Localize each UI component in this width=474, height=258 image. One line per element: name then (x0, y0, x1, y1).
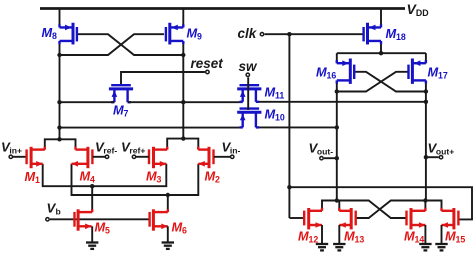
node clk tap (287, 32, 291, 36)
svg-text:10: 10 (275, 113, 285, 123)
label M3 (146, 169, 162, 185)
wire tail T1 (43, 164, 167, 186)
node Vout- (335, 156, 339, 160)
transistor M14 (407, 208, 426, 230)
svg-text:M: M (344, 229, 355, 244)
label Vin- (222, 139, 241, 155)
svg-text:17: 17 (438, 71, 448, 81)
node X bridge (57, 137, 61, 141)
node M18 drain (379, 51, 383, 55)
transistor M16 (337, 59, 354, 84)
label M2 (205, 169, 221, 185)
transistor M8 (60, 23, 77, 45)
wire M11 right to M17 drain (256, 101, 426, 103)
label M16 (316, 65, 336, 81)
wire Vout+ tap (426, 156, 439, 158)
node Vout+ bridge (423, 198, 427, 202)
transistor M12 (304, 208, 322, 230)
node clk ring tap (287, 185, 291, 189)
node Y tap line A (181, 100, 185, 104)
svg-text:reset: reset (191, 56, 224, 71)
wire M16 source drop (336, 53, 338, 63)
wire sw gate (247, 77, 249, 110)
ground M12 (316, 244, 328, 250)
node M8 drain (57, 53, 61, 57)
svg-text:M: M (265, 85, 276, 100)
label M8 (42, 25, 58, 41)
wire tail T2 (72, 164, 199, 195)
wire M8 source column (59, 9, 61, 28)
label M5 (95, 220, 111, 236)
label M11 (265, 85, 285, 101)
svg-text:M: M (80, 169, 91, 184)
wire Vb gate (50, 218, 150, 220)
label reset (191, 56, 224, 71)
wire reset (121, 72, 205, 85)
transistor M11 (237, 85, 261, 102)
svg-text:out-: out- (317, 147, 333, 157)
svg-text:3: 3 (157, 175, 162, 185)
transistor M3 (149, 147, 167, 169)
svg-text:ref+: ref+ (129, 145, 145, 155)
label M13 (344, 229, 364, 245)
svg-text:in-: in- (230, 145, 241, 155)
ground M14 (419, 244, 431, 250)
wire clk column (288, 34, 290, 218)
wire M8 drain to M9 gate cross (60, 34, 165, 55)
wire latch source rail (337, 52, 426, 54)
terminal clk (260, 33, 263, 36)
wire node X to M10 left (60, 127, 243, 129)
label Vin+ (1, 139, 22, 155)
ground M15 (435, 244, 447, 250)
wire M10 right to M16 drain (256, 126, 337, 128)
node X tap line B (57, 125, 61, 129)
label Vref+ (121, 139, 145, 155)
transistor M9 (166, 23, 183, 45)
transistor M5 (75, 209, 93, 231)
wire M6 drain (167, 195, 169, 212)
wire M17 drain column (425, 81, 427, 201)
wire M7 right to M11 left (128, 101, 243, 103)
wire node Y column (182, 41, 184, 139)
svg-text:sw: sw (239, 59, 259, 74)
label M17 (428, 65, 448, 81)
label M4 (80, 169, 96, 185)
transistor M17 (409, 59, 426, 84)
svg-text:M: M (404, 229, 415, 244)
wire clk ring (289, 187, 472, 219)
transistor M6 (150, 209, 168, 231)
svg-text:M: M (428, 65, 439, 80)
svg-text:15: 15 (456, 235, 466, 245)
svg-text:in+: in+ (9, 145, 22, 155)
wire M5 drain (91, 186, 93, 212)
svg-text:M: M (298, 229, 309, 244)
wire M14 M15 drain bridge (425, 201, 441, 211)
wire M13 gate to Vout+ cross (357, 201, 426, 219)
node X tap line A (57, 100, 61, 104)
svg-text:ref-: ref- (103, 145, 117, 155)
node Vout- bridge (335, 198, 339, 202)
transistor M2 (198, 147, 213, 169)
label M18 (386, 26, 406, 42)
node M17 drain tap (424, 100, 428, 104)
svg-text:2: 2 (215, 175, 220, 185)
label Vout+ (428, 141, 455, 157)
svg-text:DD: DD (416, 8, 429, 18)
svg-text:8: 8 (52, 31, 57, 41)
terminal sw (246, 73, 249, 76)
svg-text:16: 16 (327, 71, 337, 81)
terminal Vref+ (132, 155, 135, 158)
svg-text:6: 6 (182, 226, 187, 236)
svg-text:M: M (172, 220, 183, 235)
wire M18 source column (380, 9, 382, 28)
svg-text:M: M (316, 65, 327, 80)
transistor M4 (72, 147, 93, 169)
svg-text:5: 5 (105, 226, 110, 236)
ground M13 (333, 244, 345, 250)
svg-text:M: M (25, 169, 36, 184)
svg-text:b: b (56, 207, 61, 217)
wire M12 M13 drain bridge (322, 201, 339, 211)
label Vref- (95, 139, 117, 155)
node Y bridge (181, 136, 185, 140)
label M6 (172, 220, 188, 236)
node M9 drain (181, 53, 185, 57)
svg-text:M: M (205, 169, 216, 184)
terminal Vin+ (9, 155, 12, 158)
wire M15 source (441, 225, 443, 244)
transistor M18 (364, 23, 381, 45)
transistor M1 (27, 147, 45, 169)
transistor M15 (442, 208, 459, 230)
svg-text:out+: out+ (436, 147, 454, 157)
transistor M13 (339, 208, 355, 230)
label clk (238, 26, 258, 41)
terminal Vout- (320, 157, 323, 160)
wire M17 gate to M16 drain cross (337, 72, 408, 92)
svg-text:9: 9 (197, 32, 202, 42)
svg-text:M: M (386, 26, 397, 41)
label Vb (47, 201, 61, 217)
ground M5 (86, 243, 98, 249)
terminal Vout+ (439, 156, 442, 159)
terminal Vb (46, 218, 49, 221)
node M16 drain tap (335, 125, 339, 129)
svg-text:M: M (265, 107, 276, 122)
transistor M10 (237, 109, 261, 128)
svg-text:13: 13 (355, 235, 365, 245)
wire node X to M7 left (60, 101, 115, 103)
label M7 (113, 103, 129, 119)
wire M12 source (321, 225, 323, 244)
wire M14 source (424, 225, 426, 244)
label M9 (187, 26, 203, 42)
label VDD (407, 1, 429, 18)
wire M16 drain column (336, 81, 338, 201)
svg-text:7: 7 (124, 109, 129, 119)
svg-text:M: M (445, 229, 456, 244)
node tail T2 (166, 193, 170, 197)
label M14 (404, 229, 424, 245)
wire M18 drain (380, 41, 382, 53)
transistor M7 (109, 85, 133, 102)
wire clk to M18 gate (265, 33, 364, 35)
svg-text:clk: clk (238, 26, 258, 41)
label M10 (265, 107, 285, 123)
wire Vin+ gate (13, 156, 26, 158)
svg-text:M: M (95, 220, 106, 235)
svg-text:4: 4 (90, 175, 95, 185)
wire Vout- to M14 gate cross (339, 201, 405, 219)
wire node X column (59, 41, 61, 139)
terminal reset (206, 70, 209, 73)
label M15 (445, 229, 465, 245)
wire M8 gate to M9 drain cross (78, 34, 184, 55)
svg-text:M: M (146, 169, 157, 184)
label M12 (298, 229, 318, 245)
node M17 drain (424, 89, 428, 93)
label M1 (25, 169, 41, 185)
wire M17 source drop (425, 53, 427, 63)
svg-text:11: 11 (275, 91, 284, 101)
wire Vin- gate (214, 156, 231, 158)
wire X bridge (45, 139, 76, 149)
wire Vout- tap (324, 157, 337, 159)
terminal Vref- (105, 155, 108, 158)
wire M6 source (167, 226, 169, 242)
wire M9 source column (182, 9, 184, 28)
svg-text:1: 1 (35, 175, 40, 185)
wire M5 source (91, 226, 93, 242)
wire VDD rail (40, 7, 405, 10)
wire Vref- gate (93, 156, 106, 158)
label Vout- (309, 141, 334, 157)
node M16 drain (335, 89, 339, 93)
wire M16 gate to M17 drain cross (355, 72, 426, 92)
svg-text:M: M (187, 26, 198, 41)
wire Y bridge (167, 139, 198, 150)
svg-text:18: 18 (396, 32, 406, 42)
wire M12 gate (289, 217, 304, 219)
svg-text:M: M (42, 25, 53, 40)
svg-text:M: M (113, 103, 124, 118)
node tail T1 (90, 184, 94, 188)
wire Vref+ gate (136, 156, 149, 158)
ground M6 (162, 243, 174, 249)
label sw (239, 59, 259, 74)
node Vout+ (424, 155, 428, 159)
terminal Vin- (231, 155, 234, 158)
wire M13 source (338, 225, 340, 244)
